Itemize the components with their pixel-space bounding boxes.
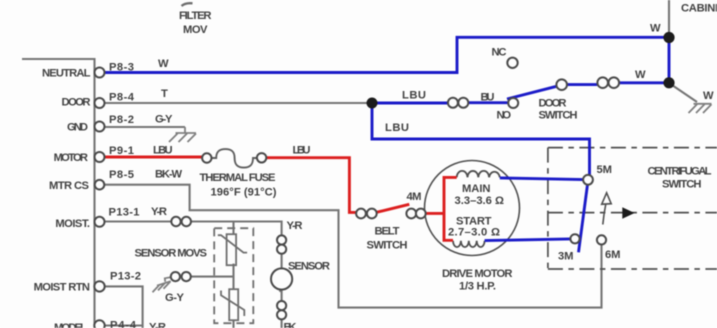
svg-text:G-Y: G-Y — [155, 114, 173, 126]
svg-text:BK-W: BK-W — [155, 169, 182, 181]
svg-text:DRIVE MOTOR: DRIVE MOTOR — [442, 268, 513, 280]
svg-text:DOOR: DOOR — [62, 96, 91, 108]
svg-text:MOTOR: MOTOR — [54, 152, 88, 164]
svg-text:P4-4: P4-4 — [110, 320, 137, 328]
svg-text:MOIST.: MOIST. — [55, 218, 90, 230]
svg-text:P8-3: P8-3 — [109, 61, 134, 73]
svg-text:T: T — [161, 88, 168, 100]
svg-text:SWITCH: SWITCH — [539, 110, 578, 122]
svg-text:SWITCH: SWITCH — [662, 179, 702, 191]
svg-text:6M: 6M — [605, 249, 621, 261]
svg-text:4M: 4M — [407, 191, 422, 203]
svg-text:BK: BK — [284, 322, 297, 328]
svg-text:3.3–3.6 Ω: 3.3–3.6 Ω — [455, 195, 505, 207]
svg-text:MTR CS: MTR CS — [49, 180, 90, 192]
svg-text:196°F (91°C): 196°F (91°C) — [211, 187, 277, 199]
svg-text:W: W — [650, 23, 661, 35]
svg-text:P8-2: P8-2 — [109, 114, 134, 126]
svg-text:SENSOR MOVS: SENSOR MOVS — [135, 248, 208, 260]
svg-text:CABINET: CABINET — [681, 3, 717, 15]
svg-text:THERMAL FUSE: THERMAL FUSE — [200, 172, 277, 184]
svg-text:W: W — [635, 69, 646, 81]
svg-text:P9-1: P9-1 — [109, 145, 134, 157]
svg-text:LBU: LBU — [153, 145, 173, 157]
svg-text:MOIST RTN: MOIST RTN — [34, 281, 90, 293]
svg-text:Y-R: Y-R — [287, 220, 303, 232]
svg-text:MODEL: MODEL — [54, 322, 87, 328]
svg-text:G-Y: G-Y — [165, 292, 185, 304]
svg-text:3M: 3M — [558, 250, 574, 262]
svg-text:Y-R: Y-R — [151, 206, 167, 218]
svg-text:W: W — [158, 58, 169, 70]
svg-text:SWITCH: SWITCH — [367, 240, 408, 252]
svg-text:P13-1: P13-1 — [109, 207, 140, 219]
svg-text:SENSOR: SENSOR — [288, 261, 330, 273]
svg-text:Y-R: Y-R — [149, 322, 166, 328]
svg-text:MOV: MOV — [183, 24, 208, 36]
svg-text:LBU: LBU — [402, 90, 426, 102]
svg-text:NEUTRAL: NEUTRAL — [42, 67, 91, 79]
svg-text:2.7–3.0 Ω: 2.7–3.0 Ω — [448, 226, 500, 238]
svg-text:W: W — [703, 90, 714, 102]
svg-text:DOOR: DOOR — [539, 97, 567, 109]
svg-text:BU: BU — [481, 91, 495, 103]
svg-text:GND: GND — [67, 122, 88, 134]
svg-text:P13-2: P13-2 — [110, 270, 141, 282]
svg-text:NO: NO — [497, 110, 512, 122]
svg-text:CENTRIFUGAL: CENTRIFUGAL — [648, 166, 712, 178]
svg-text:LBU: LBU — [385, 122, 409, 134]
svg-text:FILTER: FILTER — [179, 10, 212, 22]
svg-text:BELT: BELT — [375, 225, 400, 237]
svg-text:LBU: LBU — [293, 145, 311, 157]
svg-text:5M: 5M — [597, 164, 613, 176]
svg-text:NC: NC — [492, 46, 507, 58]
svg-text:1/3 H.P.: 1/3 H.P. — [459, 281, 496, 293]
svg-text:MAIN: MAIN — [462, 183, 491, 195]
svg-text:P8-5: P8-5 — [109, 169, 134, 181]
svg-text:P8-4: P8-4 — [109, 91, 135, 103]
